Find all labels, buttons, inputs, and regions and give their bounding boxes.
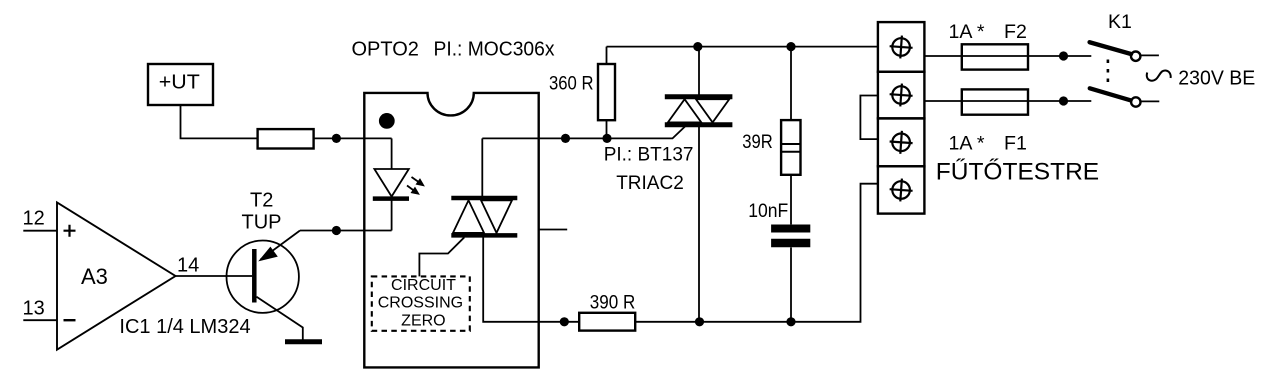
- switch K1 blade 1: [1090, 42, 1131, 54]
- terminal block cell 2: [878, 72, 925, 119]
- opto triac triangle up: [453, 200, 484, 233]
- transistor T2 collector line: [257, 297, 303, 340]
- terminal block cell 4: [878, 166, 925, 213]
- junction dot F1 switch: [1059, 96, 1068, 105]
- junction dot emitter wire: [332, 226, 341, 235]
- junction dot F2 switch: [1059, 51, 1068, 60]
- wire switch 2 right: [1141, 100, 1160, 102]
- wire +UT to resistor: [181, 105, 258, 138]
- resistor 39R lead top: [790, 47, 792, 121]
- junction dot opto pin4: [560, 317, 569, 326]
- resistor 390R body: [579, 313, 635, 331]
- opto triac top bar: [451, 196, 517, 201]
- TRIAC2 main terminal wire bottom: [698, 125, 700, 322]
- svg-text:PI.: BT137: PI.: BT137: [604, 144, 694, 165]
- svg-text:10nF: 10nF: [748, 200, 788, 222]
- opto LED emission arrow 1: [412, 177, 425, 187]
- svg-text:TRIAC2: TRIAC2: [616, 173, 684, 194]
- transistor T2 base bar: [252, 249, 257, 303]
- terminal screw 1: [889, 35, 914, 60]
- svg-text:12: 12: [23, 207, 45, 229]
- svg-text:390 R: 390 R: [590, 292, 636, 314]
- svg-text:K1: K1: [1108, 11, 1132, 33]
- op-amp plus input symbol: [64, 225, 76, 237]
- svg-text:14: 14: [177, 255, 199, 277]
- terminal block cell 1: [878, 22, 925, 72]
- op-amp minus input symbol: [64, 319, 76, 321]
- opto NC pin stub: [539, 229, 568, 231]
- wire gate rail y138 to TRIAC2 gate: [482, 127, 685, 139]
- terminal 2-3 link bracket: [860, 96, 878, 140]
- switch K1 contact circle 1: [1131, 52, 1140, 61]
- bottom rail wire: [635, 184, 878, 322]
- svg-text:39R: 39R: [742, 131, 773, 153]
- capacitor 10nF plate 2: [771, 239, 810, 248]
- wire pin 12 input: [23, 230, 57, 232]
- svg-text:FŰTŐTESTRE: FŰTŐTESTRE: [936, 159, 1099, 186]
- svg-text:F2: F2: [1004, 21, 1027, 43]
- svg-text:TUP: TUP: [242, 212, 282, 234]
- zero crossing dashed box: [372, 276, 470, 330]
- svg-text:F1: F1: [1004, 132, 1027, 154]
- junction dot opto pin6: [561, 134, 570, 143]
- opto triac bottom bar: [451, 233, 517, 238]
- fuse F2 body: [962, 44, 1028, 69]
- resistor 39R inner lines: [781, 144, 800, 152]
- svg-text:T2: T2: [250, 190, 273, 212]
- wire F1 to switch: [1028, 100, 1091, 102]
- svg-text:CROSSING: CROSSING: [378, 295, 463, 312]
- wire 360R bottom: [606, 120, 608, 138]
- ground symbol: [285, 339, 322, 344]
- terminal screw 2: [889, 83, 914, 108]
- junction dot bottom rail cap: [786, 317, 795, 326]
- TRIAC2 bottom bar: [665, 122, 733, 127]
- svg-text:230V BE: 230V BE: [1178, 68, 1255, 90]
- junction dot top rail 39R: [786, 42, 795, 51]
- switch K1 contact circle 2: [1131, 97, 1140, 106]
- TRIAC2 main terminal wire top: [698, 47, 700, 97]
- opto LED emission arrow 2: [407, 186, 420, 195]
- wire F2 to switch: [1028, 55, 1091, 57]
- wire switch 1 right: [1141, 54, 1159, 56]
- wire opto triac top to gate rail: [481, 138, 483, 198]
- switch K1 blade 2: [1090, 88, 1131, 100]
- junction dot top rail triac: [693, 42, 702, 51]
- capacitor 10nF lead bottom: [790, 247, 792, 321]
- transistor T2 emitter arrow head: [258, 247, 278, 262]
- wire terminal2 to fuse F1: [924, 100, 961, 102]
- switch K1 mechanical link dashed: [1107, 60, 1110, 87]
- transistor T2 circle: [227, 241, 299, 313]
- fuse F1 body: [962, 89, 1028, 114]
- capacitor 10nF lead top: [790, 175, 792, 225]
- opto triac triangle down: [481, 200, 512, 233]
- transistor T2 emitter line: [261, 231, 301, 260]
- TRIAC2 triangle down: [696, 99, 729, 122]
- junction dot 360R bottom: [602, 134, 611, 143]
- opto LED triangle: [374, 169, 408, 197]
- AC sine symbol: [1147, 70, 1171, 80]
- wire T2 emitter to opto LED cathode: [300, 230, 392, 232]
- svg-text:13: 13: [23, 298, 45, 320]
- fuse F1 through line: [962, 100, 1028, 102]
- wire resistor to opto LED anode: [314, 137, 392, 139]
- svg-text:360 R: 360 R: [549, 72, 594, 94]
- opto LED wire down: [391, 138, 393, 169]
- wire 360R top to rail: [606, 47, 608, 64]
- TRIAC2 triangle up: [668, 99, 701, 122]
- +UT supply box: [148, 64, 213, 105]
- wire terminal1 to fuse F2: [924, 55, 961, 57]
- opto-coupler OPTO2 package outline: [364, 93, 538, 368]
- wire pin 13 input: [23, 319, 57, 321]
- svg-text:A3: A3: [81, 264, 108, 289]
- resistor 360R body: [598, 64, 615, 120]
- svg-text:1A *: 1A *: [949, 21, 985, 43]
- resistor R (+UT to opto): [258, 129, 314, 148]
- capacitor 10nF plate 1: [771, 225, 810, 233]
- svg-text:1A *: 1A *: [949, 132, 985, 154]
- svg-text:OPTO2: OPTO2: [352, 39, 419, 61]
- wire opto triac bottom to 390R: [483, 235, 579, 321]
- TRIAC2 top bar: [665, 94, 733, 99]
- svg-text:+UT: +UT: [159, 72, 200, 94]
- fuse F2 through line: [962, 55, 1028, 57]
- svg-text:CIRCUIT: CIRCUIT: [391, 277, 456, 294]
- svg-text:PI.: MOC306x: PI.: MOC306x: [434, 39, 555, 61]
- opto zero-crossing gate wire: [419, 237, 464, 276]
- op-amp U1 A3 triangle: [57, 202, 176, 349]
- top rail wire: [607, 46, 878, 48]
- junction dot anode wire: [332, 134, 341, 143]
- wire pin 14 output to T2 base: [176, 275, 253, 277]
- junction dot bottom rail triac: [695, 317, 704, 326]
- opto LED cathode wire down: [391, 199, 393, 231]
- svg-text:IC1 1/4 LM324: IC1 1/4 LM324: [119, 316, 250, 338]
- terminal screw 4: [889, 178, 914, 203]
- svg-text:ZERO: ZERO: [401, 312, 445, 329]
- terminal screw 3: [889, 130, 914, 155]
- opto LED cathode bar: [373, 196, 409, 201]
- opto pin-1 dot: [379, 113, 395, 129]
- terminal block cell 3: [878, 118, 925, 166]
- resistor 39R body: [781, 120, 800, 175]
